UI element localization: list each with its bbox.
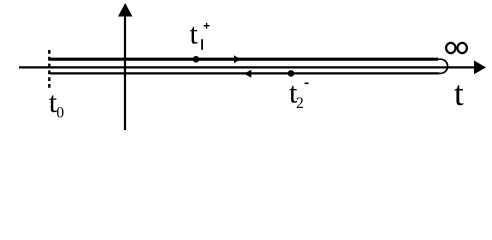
svg-text:0: 0 [56, 105, 64, 122]
contour upper branch [50, 58, 438, 61]
dot t1 [193, 56, 200, 63]
upper branch arrow [234, 55, 241, 63]
label t1+ [190, 18, 210, 51]
infinity symbol [446, 43, 467, 53]
vertical axis [118, 3, 133, 130]
contour lower branch [50, 72, 439, 74]
dashed line at t0 [48, 50, 50, 90]
dot t2 [288, 70, 295, 77]
svg-text:t: t [454, 74, 464, 113]
label t0 [49, 86, 65, 122]
lower branch arrow [244, 70, 251, 78]
contour U-turn arc [438, 59, 448, 73]
svg-text:t: t [190, 18, 199, 51]
svg-text:2: 2 [296, 95, 304, 112]
label t2- [289, 77, 309, 113]
horizontal t-axis [19, 61, 486, 75]
